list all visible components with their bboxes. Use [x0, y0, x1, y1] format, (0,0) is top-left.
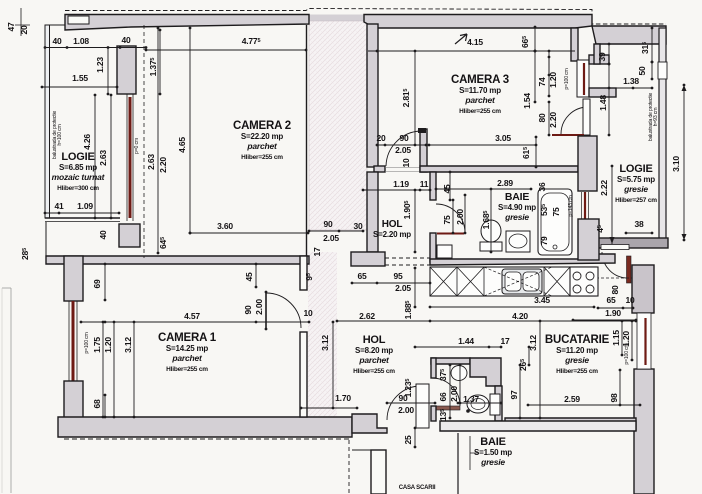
svg-text:CAMERA 3: CAMERA 3 [451, 74, 509, 86]
CAMERA 2 right wall line [306, 25, 308, 256]
svg-text:3.12: 3.12 [528, 335, 538, 351]
svg-text:1.54: 1.54 [522, 93, 532, 109]
gray band above hatch strip [309, 15, 367, 23]
counter X box 1 [430, 267, 457, 296]
dim line 65/10 kitchen right [598, 307, 633, 309]
stairwell top line [352, 449, 371, 451]
dim verticals right loggia 39/31/50 [608, 44, 610, 64]
svg-text:74: 74 [537, 77, 547, 87]
dim vertical 47/20 ticks [15, 8, 30, 36]
dim line 40/1.08/40 top-left [45, 47, 146, 49]
kitchen right wall band [634, 369, 654, 494]
small bathroom left wall lower [431, 406, 436, 421]
small bathroom right wall [495, 386, 502, 421]
door stub wall of CAMERA 3 entrance [420, 129, 427, 172]
svg-text:mozaic turnat: mozaic turnat [52, 172, 106, 182]
svg-text:11: 11 [420, 179, 429, 189]
svg-text:1.37: 1.37 [463, 394, 479, 404]
svg-text:2.05: 2.05 [395, 145, 411, 155]
bathroom bottom wall / kitchen top wall [430, 254, 615, 265]
dim vertical 98 [619, 370, 621, 405]
svg-text:10: 10 [625, 295, 635, 305]
small bathroom door arc [432, 378, 460, 406]
svg-text:4.65: 4.65 [177, 137, 187, 153]
left loggia bottom wall [45, 217, 120, 219]
dim verticals kitchen right 1.15/1.20 [621, 321, 623, 355]
svg-text:parchet: parchet [464, 95, 496, 105]
small bathroom top wall [431, 358, 470, 364]
stove with 4 burners [570, 267, 598, 296]
top facade wall band right (above right LOGIE) [592, 26, 666, 44]
left loggia balustrade wall (double line) [45, 25, 50, 218]
svg-text:2.05: 2.05 [323, 233, 339, 243]
kitchen window red right wall [644, 318, 646, 365]
small bathroom door leaf red [433, 406, 460, 410]
dim vertical 45 BAIE [449, 172, 451, 200]
pillar between left loggia and CAMERA 2 (top) [117, 46, 136, 94]
window notch in right balustrade [658, 62, 667, 79]
svg-text:2.20: 2.20 [158, 157, 168, 173]
dim vertical 3.12 kitchen [539, 321, 541, 418]
window between left LOGIE and CAMERA 2 frame [126, 94, 128, 221]
kitchen bottom wall [505, 418, 636, 430]
dashed property line along top facade [65, 9, 666, 25]
counter X box 2 [457, 267, 484, 296]
stairwell left wall [371, 450, 386, 494]
HOL bottom wall left piece [352, 414, 387, 433]
svg-text:38: 38 [634, 219, 644, 229]
dashed line under bottom facade [64, 438, 352, 440]
dim vertical 3.10 far right [683, 85, 685, 240]
CAMERA 1 right wall upper part [300, 256, 307, 290]
svg-text:40: 40 [98, 230, 108, 240]
wall between hatched strip and upper HOL [367, 24, 378, 167]
svg-text:LOGIE: LOGIE [619, 163, 652, 175]
dim vertical 1.54 [534, 51, 536, 102]
dim verticals CAMERA1 interior [102, 322, 104, 417]
balustrade top connector [45, 24, 65, 26]
small fixture bottom-left of bathroom [437, 245, 452, 258]
svg-text:Hliber=300 cm: Hliber=300 cm [57, 185, 99, 192]
svg-text:39: 39 [597, 52, 607, 62]
svg-text:2.00: 2.00 [254, 299, 264, 315]
dim vertical 68 [104, 395, 106, 417]
svg-text:S=4.90 mp: S=4.90 mp [498, 203, 536, 212]
dim line 1.70 [301, 407, 357, 409]
dashed open passage HOL [385, 258, 430, 265]
svg-text:1.44: 1.44 [458, 336, 474, 346]
svg-text:80: 80 [610, 285, 620, 295]
svg-text:p=100 cm: p=100 cm [564, 68, 570, 89]
svg-text:S=8.20 mp: S=8.20 mp [355, 346, 393, 355]
window glazing red CAMERA 3 [583, 63, 585, 95]
svg-text:90: 90 [243, 305, 253, 315]
svg-text:80: 80 [537, 113, 547, 123]
small bathroom corner sink [451, 366, 467, 381]
svg-text:3.45: 3.45 [534, 295, 550, 305]
bathroom door threshold red [437, 233, 464, 235]
svg-text:3.12: 3.12 [320, 335, 330, 351]
bathroom left wall lower [430, 233, 436, 262]
toilet WC bathroom [481, 220, 501, 242]
door CAMERA 3 threshold red [552, 134, 584, 136]
dim line 38 bottom right loggia [626, 232, 652, 234]
svg-text:1.90: 1.90 [605, 308, 621, 318]
dim vertical 26 small bath [528, 347, 530, 365]
svg-text:40: 40 [121, 35, 131, 45]
svg-text:p=0 cm: p=0 cm [134, 138, 140, 154]
svg-text:41: 41 [54, 201, 64, 211]
svg-text:2.89: 2.89 [497, 178, 513, 188]
svg-text:20: 20 [19, 25, 29, 35]
svg-text:1.48: 1.48 [598, 95, 608, 111]
svg-text:2.00: 2.00 [449, 386, 459, 402]
dim vertical 2.81 CAMERA 3 [414, 51, 416, 145]
svg-text:h=100 cm: h=100 cm [57, 124, 63, 145]
svg-text:75: 75 [551, 207, 561, 217]
svg-text:4.20: 4.20 [512, 311, 528, 321]
dim verticals window 74/1.20 [548, 51, 550, 75]
svg-text:CAMERA 2: CAMERA 2 [233, 120, 291, 132]
dim vertical 2.22 right loggia [611, 165, 613, 167]
dim verticals BAIE 75/2.00 [452, 200, 454, 233]
svg-text:2.22: 2.22 [599, 180, 609, 196]
svg-text:BUCATARIE: BUCATARIE [545, 334, 610, 346]
svg-text:2.20: 2.20 [548, 112, 558, 128]
dim vertical left 2.63 [110, 95, 112, 218]
CAMERA 3 entrance door leaf mark [418, 128, 426, 133]
kitchen counter outline [430, 267, 596, 296]
svg-text:h=93 cm: h=93 cm [653, 108, 659, 127]
svg-text:75: 75 [442, 215, 452, 225]
dim line 2.59 kitchen bottom [528, 404, 640, 406]
svg-text:Hliber=255 cm: Hliber=255 cm [556, 368, 598, 375]
svg-text:CASA SCARII: CASA SCARII [399, 485, 436, 491]
svg-text:65: 65 [606, 295, 616, 305]
svg-text:1.23: 1.23 [95, 57, 105, 73]
dim vertical 25 [414, 428, 416, 447]
stairwell dashed edge [348, 440, 350, 494]
svg-text:2.59: 2.59 [564, 394, 580, 404]
dim line 90 entrance [387, 402, 435, 404]
svg-text:95: 95 [393, 271, 403, 281]
door CAMERA 3 leaf [583, 99, 590, 135]
dim line 41/1.09 [45, 212, 119, 214]
CAMERA 1 right wall lower part [300, 332, 307, 417]
dim line 1.38 ticks top right [609, 87, 652, 89]
svg-text:S=11.20 mp: S=11.20 mp [556, 346, 598, 355]
svg-text:2.62: 2.62 [359, 311, 375, 321]
svg-text:Hliber=255 cm: Hliber=255 cm [459, 108, 501, 115]
window bathroom to loggia red [584, 192, 586, 219]
kitchen door to loggia opening [601, 245, 629, 250]
dim line 1.37 small bath [458, 402, 501, 404]
dim line 1.90 kitchen [573, 319, 636, 321]
dim vertical CAMERA2 2.63/2.20 [157, 28, 159, 253]
door CAMERA 3 to LOGIE arc [561, 107, 588, 134]
dim vertical 1.37 [159, 30, 161, 94]
svg-text:20: 20 [376, 133, 386, 143]
dim vertical 3.12 HOL right [332, 322, 334, 408]
wall chunk between CAMERA 1 top and HOL [351, 252, 385, 266]
svg-text:4.26: 4.26 [82, 134, 92, 150]
small bathroom top-right step wall [470, 358, 501, 386]
dim line 65/95 HOL top [352, 282, 430, 284]
dim line 4.57 CAMERA 1 [81, 321, 309, 323]
entrance door arc [387, 386, 421, 420]
svg-text:BAIE: BAIE [480, 436, 505, 448]
dim line 20/90 CAMERA3 door + 3.05 [377, 144, 536, 146]
svg-text:LOGIE: LOGIE [61, 151, 94, 163]
dim line 4.15/66 CAMERA 3 top [368, 50, 575, 52]
dim vertical 1.23 [107, 48, 109, 95]
label leader small BAIE [470, 436, 478, 470]
kitchen sink unit [502, 269, 542, 294]
counter dashed diagonals over sink [484, 267, 552, 296]
counter X box 3 [544, 267, 570, 296]
dim vertical 97 [519, 365, 521, 418]
svg-text:1.08: 1.08 [73, 36, 89, 46]
svg-text:17: 17 [312, 247, 322, 257]
dim vertical 1.48 [608, 64, 610, 135]
pillar between bathroom and right loggia upper [578, 136, 597, 191]
svg-text:45: 45 [244, 272, 254, 282]
bathtub [538, 189, 572, 255]
top facade wall band middle (above CAMERA 3) [364, 15, 592, 29]
CAMERA 3 right wall upper [571, 28, 578, 61]
svg-text:BAIE: BAIE [505, 191, 529, 203]
svg-text:47: 47 [6, 22, 16, 32]
svg-text:4.57: 4.57 [184, 311, 200, 321]
kitchen-loggia door arc [602, 252, 628, 278]
dim vertical 1.90 upper HOL [414, 190, 416, 252]
svg-text:S=2.20 mp: S=2.20 mp [373, 230, 411, 239]
CAMERA 1 / CAMERA 2 dividing wall (horizontal band) [46, 256, 309, 264]
svg-text:S=5.75 mp: S=5.75 mp [617, 175, 655, 184]
faint page edge line [10, 288, 12, 493]
bathroom left wall upper [430, 172, 436, 200]
svg-text:Hliber=255 cm: Hliber=255 cm [166, 366, 208, 373]
svg-text:parchet: parchet [358, 355, 390, 365]
pillar at CAMERA 2 bottom-left corner [119, 224, 140, 247]
dim line 1.19/11 upper HOL [363, 189, 430, 191]
svg-text:79: 79 [539, 236, 549, 246]
dim line 4.77 CAMERA 2 top [146, 49, 306, 51]
CAMERA 1 window glazing (red) [72, 301, 75, 381]
hatched strip right of CAMERA 1 wall [308, 252, 337, 417]
dim vertical 69 CAMERA1 [104, 264, 106, 300]
dim vertical 1.68 BAIE [490, 189, 492, 252]
window glazing line (red) left loggia [129, 97, 132, 218]
svg-text:1.20: 1.20 [548, 72, 558, 88]
wall foot at bottom of W1 [374, 166, 385, 172]
stairwell right wall [457, 433, 459, 494]
svg-text:S=11.70 mp: S=11.70 mp [459, 86, 501, 95]
svg-text:1.20: 1.20 [103, 337, 113, 353]
CAMERA 1 bottom facade wall band [58, 417, 352, 437]
right loggia balustrade wall [659, 28, 666, 247]
svg-text:1.15: 1.15 [611, 330, 621, 346]
svg-text:S=22.20 mp: S=22.20 mp [241, 132, 284, 141]
svg-text:3.60: 3.60 [217, 221, 233, 231]
upper HOL left wall [367, 172, 378, 252]
dim line 1.44/17 small bath [415, 346, 501, 348]
CAMERA 1 door leaf [265, 292, 267, 329]
svg-text:gresie: gresie [480, 457, 505, 467]
svg-text:2.63: 2.63 [98, 150, 108, 166]
svg-text:HOL: HOL [382, 219, 403, 230]
CAMERA 1 left wall lower chunk [64, 381, 83, 418]
svg-text:30: 30 [353, 221, 363, 231]
dashed axis line x144 [143, 25, 145, 258]
bathroom door arc [436, 204, 465, 233]
dim line 90/30 door CAMERA2 [309, 230, 363, 232]
kitchen window frame strip [637, 313, 651, 369]
pillar between bathroom and right loggia lower [578, 219, 599, 260]
svg-text:90: 90 [399, 133, 409, 143]
svg-text:3.12: 3.12 [123, 337, 133, 353]
svg-text:Hliber=255 cm: Hliber=255 cm [241, 154, 283, 161]
facade edge below left loggia [45, 222, 47, 256]
svg-text:10: 10 [303, 308, 313, 318]
hatched strip between CAMERA 2 and HOL (top center) [309, 21, 367, 230]
window niche CAMERA 3 to right LOGIE [577, 60, 589, 97]
svg-text:S=6.85 mp: S=6.85 mp [59, 163, 97, 172]
dim vertical left loggia 4.26 [94, 95, 96, 218]
svg-text:HOL: HOL [363, 334, 386, 346]
svg-text:3.10: 3.10 [671, 156, 681, 172]
svg-text:3.05: 3.05 [495, 133, 511, 143]
entrance door leaf [416, 384, 429, 428]
kitchen-loggia door leaf red [627, 256, 632, 283]
wall piece right of window top [589, 55, 609, 64]
CAMERA 3 bottom wall [420, 166, 578, 172]
CAMERA 3 entrance door arc [386, 131, 421, 166]
svg-text:25: 25 [403, 435, 413, 445]
svg-text:gresie: gresie [504, 212, 529, 222]
small bathroom left wall upper [431, 358, 436, 378]
svg-text:2.05: 2.05 [395, 283, 411, 293]
svg-text:p=100 cm: p=100 cm [624, 343, 630, 364]
dim vertical 1.88 [414, 268, 416, 307]
svg-text:17: 17 [500, 336, 510, 346]
svg-text:parchet: parchet [246, 141, 278, 151]
svg-text:1.38: 1.38 [623, 76, 639, 86]
svg-text:Hliber=255 cm: Hliber=255 cm [353, 368, 395, 375]
svg-text:45: 45 [442, 184, 452, 194]
svg-text:1.09: 1.09 [77, 201, 93, 211]
dim line 3.45 kitchen counter [430, 306, 594, 308]
svg-text:1.70: 1.70 [335, 393, 351, 403]
right loggia left wall top piece [594, 44, 600, 64]
svg-text:50: 50 [637, 66, 647, 76]
dim vertical 61 CAMERA3-BAIE [535, 137, 537, 167]
svg-text:1.19: 1.19 [393, 179, 409, 189]
svg-text:65: 65 [357, 271, 367, 281]
svg-text:10: 10 [401, 158, 411, 168]
svg-text:p=143 cm: p=143 cm [568, 195, 574, 216]
svg-text:1.75: 1.75 [92, 337, 102, 353]
svg-text:69: 69 [92, 279, 102, 289]
svg-text:1.55: 1.55 [72, 73, 88, 83]
CAMERA 1 window frame (left facade) [68, 301, 70, 381]
CAMERA 1 left wall upper chunk [64, 256, 83, 301]
svg-text:S=14.25 mp: S=14.25 mp [166, 344, 209, 353]
svg-text:2.00: 2.00 [398, 405, 414, 415]
svg-text:parchet: parchet [171, 353, 203, 363]
threshold lines CAMERA 3 door [385, 168, 420, 172]
svg-text:p=100 cm: p=100 cm [84, 332, 90, 353]
CAMERA 1 door arc [266, 293, 301, 328]
svg-text:97: 97 [509, 390, 519, 400]
svg-text:4.15: 4.15 [467, 37, 483, 47]
junction dot small bath [466, 409, 470, 413]
top facade wall band left (above CAMERA 2) [65, 15, 309, 31]
svg-text:98: 98 [609, 393, 619, 403]
kitchen right wall pillar [632, 265, 654, 313]
dim vertical CAMERA2 4.65 [189, 28, 191, 233]
dim verticals small bath 66/2.00 [449, 365, 451, 418]
washbasin bathroom [506, 231, 530, 252]
svg-text:gresie: gresie [564, 355, 589, 365]
svg-text:40: 40 [52, 36, 62, 46]
dim line 2.89 BAIE [436, 188, 531, 190]
dim line 2.62 HOL / 4.20 kitchen [337, 320, 636, 322]
svg-text:CAMERA 1: CAMERA 1 [158, 332, 217, 344]
svg-text:Hliber=257 cm: Hliber=257 cm [615, 197, 657, 204]
dim line 3.60 CAMERA 2 [190, 232, 308, 234]
wall piece right of window bottom [589, 88, 616, 97]
arrow NE CAMERA 3 [455, 34, 467, 44]
svg-text:90: 90 [323, 219, 333, 229]
right loggia bottom wall dark bar [598, 238, 668, 248]
facade notch top-left [68, 16, 89, 24]
svg-text:2.00: 2.00 [455, 209, 465, 225]
bottom wall band to stairwell [440, 421, 636, 431]
svg-text:66: 66 [438, 392, 448, 402]
dim vertical CAMERA1 door 45/90 [255, 264, 257, 287]
dim verticals door 80/2.20 [548, 102, 550, 135]
dim line 1.55 [42, 86, 117, 88]
svg-text:gresie: gresie [623, 184, 648, 194]
small bathroom WC [467, 395, 489, 413]
svg-text:68: 68 [92, 399, 102, 409]
svg-text:S=1.50 mp: S=1.50 mp [474, 448, 512, 457]
svg-text:2.63: 2.63 [146, 154, 156, 170]
svg-text:36: 36 [537, 182, 547, 192]
